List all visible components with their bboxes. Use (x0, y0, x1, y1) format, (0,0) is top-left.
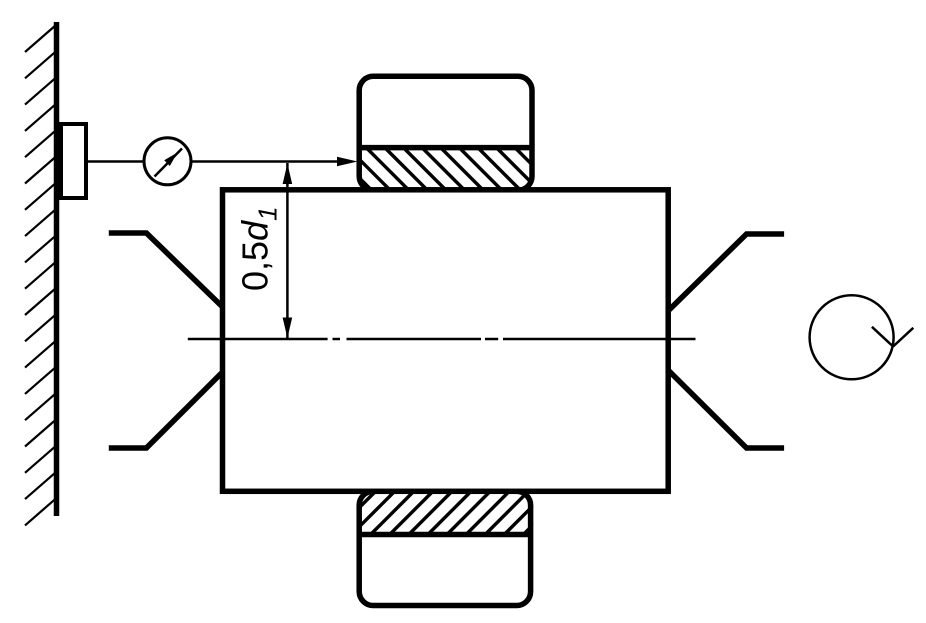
bottom gear (rolling disc) (359, 491, 530, 605)
wall surface line (54, 22, 60, 516)
measuring contact line from dial to part with arrowhead (191, 160, 340, 163)
right center support cone (669, 234, 784, 448)
dial indicator body (144, 138, 191, 185)
top gear (rolling disc), plain upper part (359, 76, 532, 190)
dimension line 0,5 d1 (286, 163, 289, 338)
top gear hatched band (329, 148, 578, 192)
axis center line (dash-dot) (188, 338, 696, 341)
shaft body rectangle (223, 190, 669, 492)
rotation direction symbol (810, 295, 894, 379)
bottom gear hatched band (314, 492, 566, 534)
stem line from block to dial (87, 160, 144, 163)
top gear divider line (358, 145, 535, 151)
indicator mounting block (61, 124, 86, 198)
left center support cone (109, 233, 222, 448)
dial indicator needle (155, 149, 183, 177)
wall hatching (25, 25, 56, 525)
bottom gear divider line (358, 532, 534, 538)
